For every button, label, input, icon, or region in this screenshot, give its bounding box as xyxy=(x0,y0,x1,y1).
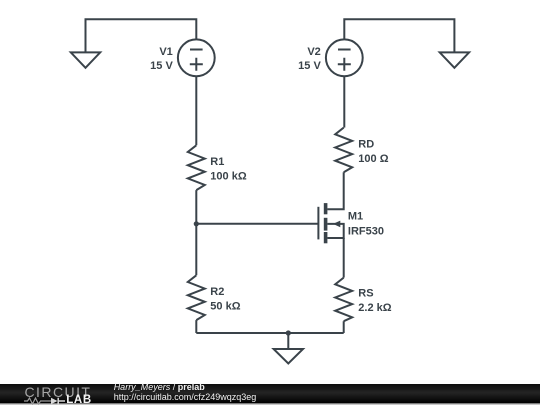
ground left xyxy=(71,52,100,67)
transistor M1 body wire and source/drain stubs xyxy=(327,224,343,238)
node A junction dot xyxy=(194,221,199,226)
wire V1 to R1 xyxy=(195,76,197,145)
transistor M1 arrow xyxy=(333,221,340,228)
CircuitLab logo xyxy=(25,384,92,400)
svg-text:RD: RD xyxy=(358,138,374,150)
wire bottom rail xyxy=(196,332,343,334)
resistor R2 xyxy=(188,275,205,320)
svg-text:IRF530: IRF530 xyxy=(348,226,384,238)
ground right xyxy=(440,52,469,67)
wire bottom ground stub xyxy=(287,333,289,349)
transistor M1 gate line xyxy=(317,207,319,240)
svg-text:V2: V2 xyxy=(307,46,320,58)
wire top-right from V2 to ground xyxy=(344,19,454,52)
node bottom junction dot xyxy=(286,330,291,335)
footer text xyxy=(114,382,205,392)
svg-text:15 V: 15 V xyxy=(150,60,173,72)
resistor R1 xyxy=(188,145,205,190)
wire source to RS xyxy=(343,238,345,278)
svg-text:100 kΩ: 100 kΩ xyxy=(210,171,247,183)
transistor M1 channel bars xyxy=(324,203,328,243)
wire RS to bottom rail xyxy=(343,321,345,333)
wire V2 to RD xyxy=(343,76,345,127)
svg-text:R2: R2 xyxy=(210,286,224,298)
svg-text:50 kΩ: 50 kΩ xyxy=(210,301,240,313)
voltage source V1 xyxy=(178,39,215,76)
svg-text:15 V: 15 V xyxy=(298,60,321,72)
svg-text:M1: M1 xyxy=(348,210,363,222)
wire gate from node A xyxy=(196,223,318,225)
svg-text:2.2 kΩ: 2.2 kΩ xyxy=(358,302,391,314)
wire R2 to bottom rail xyxy=(195,320,197,333)
svg-text:V1: V1 xyxy=(159,46,172,58)
svg-text:RS: RS xyxy=(358,287,373,299)
resistor RS xyxy=(335,278,352,322)
wire RD to drain xyxy=(327,172,343,209)
svg-text:R1: R1 xyxy=(210,156,224,168)
voltage source V2 xyxy=(326,39,363,76)
wire top-left from V1 to ground xyxy=(86,19,197,52)
resistor RD xyxy=(335,128,352,173)
footer bar xyxy=(0,384,540,403)
wire R1 to R2 xyxy=(195,190,197,275)
ground bottom xyxy=(274,349,303,364)
svg-text:100 Ω: 100 Ω xyxy=(358,153,388,165)
